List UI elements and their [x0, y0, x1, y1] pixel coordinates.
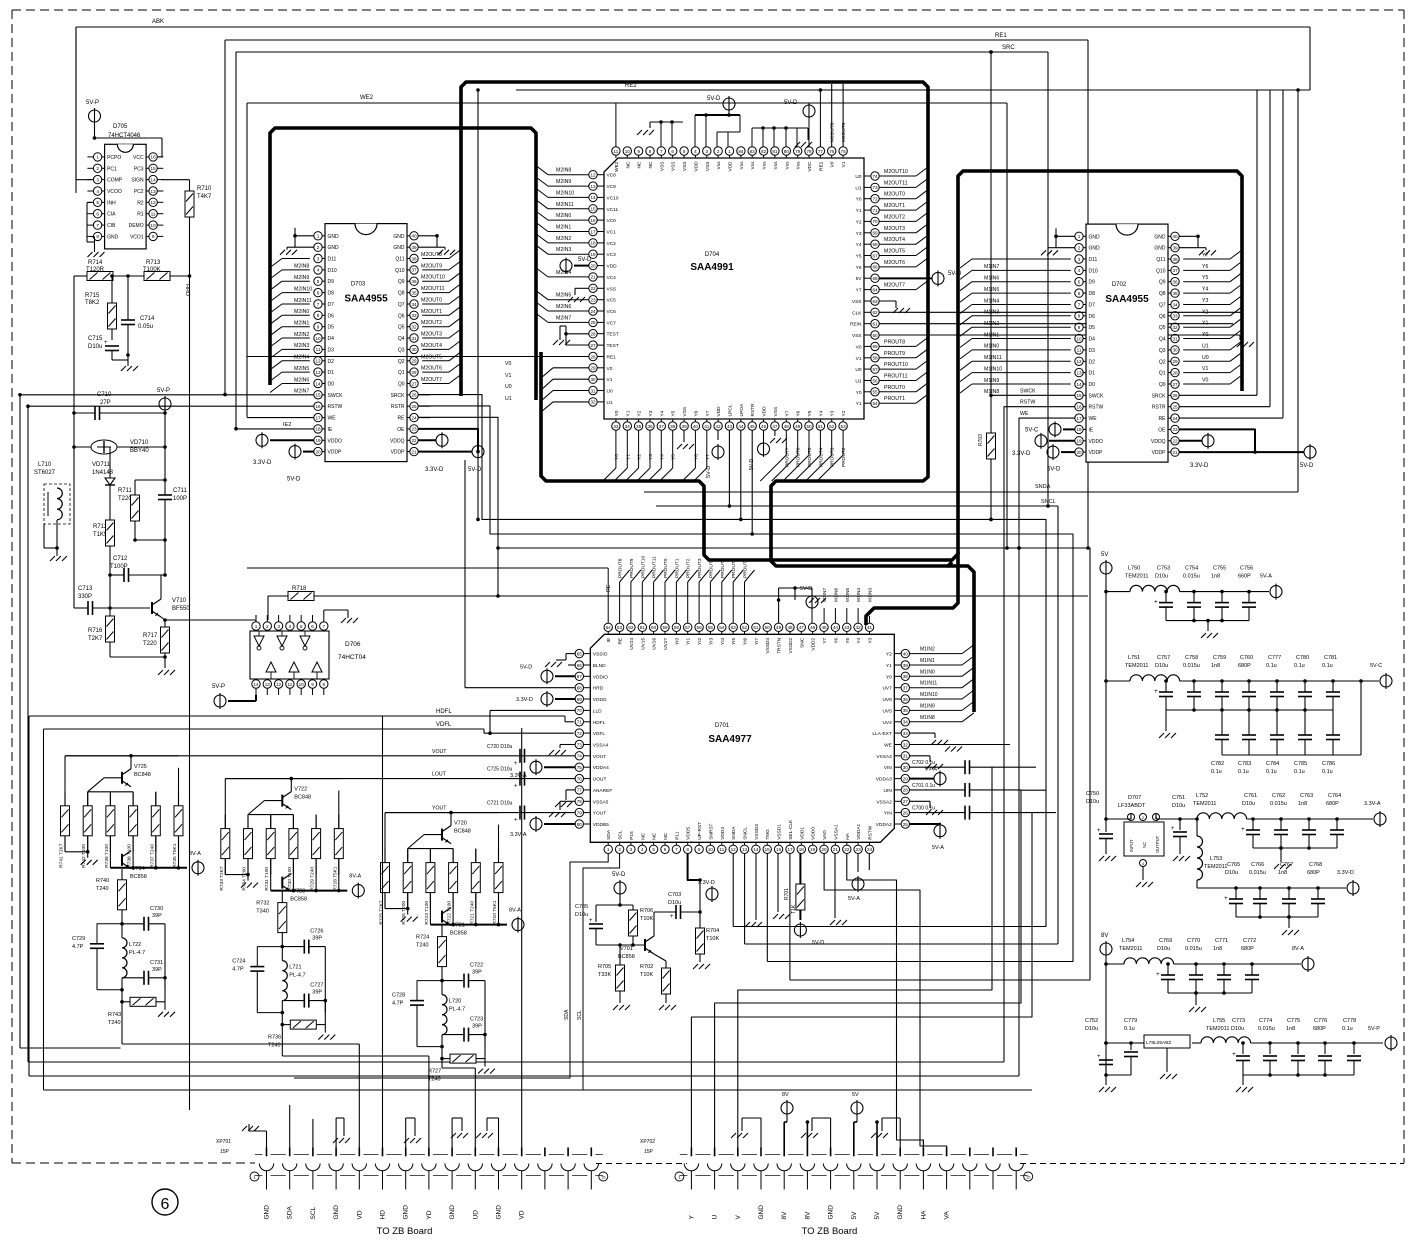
svg-text:GND: GND [1154, 246, 1166, 252]
svg-text:72: 72 [872, 197, 878, 202]
svg-text:1n8: 1n8 [1278, 870, 1287, 876]
ground XP701 pin1 [242, 1124, 267, 1148]
svg-text:7: 7 [675, 847, 678, 852]
svg-text:D7: D7 [328, 302, 335, 308]
svg-text:M2OUT7: M2OUT7 [421, 377, 442, 383]
svg-text:VDDG: VDDG [593, 697, 607, 703]
svg-text:M2IN3: M2IN3 [556, 247, 571, 253]
IC D701 bottom pins [604, 819, 874, 853]
svg-text:R721 T240: R721 T240 [469, 901, 475, 925]
svg-text:72: 72 [577, 731, 583, 736]
svg-text:38: 38 [1172, 257, 1178, 262]
svg-text:C756: C756 [1240, 566, 1253, 572]
svg-text:VDDB5: VDDB5 [593, 822, 609, 828]
svg-text:1: 1 [317, 234, 320, 239]
svg-text:9: 9 [311, 682, 314, 687]
connector XP701 pins [255, 1148, 603, 1190]
svg-text:VOUT: VOUT [432, 749, 447, 755]
svg-text:Y1: Y1 [625, 410, 631, 416]
svg-text:YI6: YI6 [743, 637, 749, 645]
svg-text:M2IN0: M2IN0 [556, 213, 571, 219]
svg-text:VDD: VDD [716, 406, 722, 417]
power 8V rail [1100, 933, 1112, 1075]
svg-text:48: 48 [787, 625, 793, 630]
svg-text:VSSIO: VSSIO [593, 652, 608, 658]
resistor R731 T100 [264, 815, 275, 891]
IC D702 SAA4955 body [1086, 224, 1168, 462]
resistor R703 [978, 50, 996, 521]
svg-text:3: 3 [630, 847, 633, 852]
svg-text:15P: 15P [644, 1149, 654, 1155]
svg-text:T100P: T100P [110, 564, 128, 570]
IC D701 top pins [604, 623, 874, 654]
svg-text:M2IN7: M2IN7 [294, 389, 309, 395]
svg-text:37: 37 [411, 268, 417, 273]
capacitor C723 39P [442, 1017, 487, 1042]
svg-text:0.1u: 0.1u [1294, 769, 1305, 775]
svg-text:SCL: SCL [618, 830, 624, 840]
svg-text:60: 60 [872, 333, 878, 338]
svg-text:VDD: VDD [762, 406, 768, 417]
svg-text:Y1: Y1 [856, 208, 862, 214]
svg-text:32: 32 [411, 325, 417, 330]
svg-text:82: 82 [761, 149, 767, 154]
resistor R737 T240 [149, 792, 160, 868]
inductor L721 PL-4.7 [281, 947, 306, 1015]
svg-text:M2OUT0: M2OUT0 [884, 192, 905, 198]
svg-text:D10u: D10u [1085, 1026, 1098, 1032]
svg-text:5V-C: 5V-C [1370, 663, 1382, 669]
capacitor C729 4.7P [72, 924, 122, 990]
svg-text:C757: C757 [1157, 655, 1170, 661]
svg-text:M2OUT3: M2OUT3 [884, 226, 905, 232]
svg-text:77: 77 [577, 788, 583, 793]
resistor R729 T240 [310, 815, 321, 891]
svg-text:Y5: Y5 [1202, 275, 1208, 281]
IC D706 bottom pins [252, 680, 328, 695]
capacitor C757 D10u [1154, 655, 1173, 710]
svg-text:36: 36 [1172, 280, 1178, 285]
ground D704 pin22 [568, 288, 589, 302]
svg-text:VDD: VDD [693, 161, 699, 172]
svg-text:T8K2: T8K2 [85, 300, 100, 306]
svg-text:80: 80 [784, 149, 790, 154]
svg-text:M2IN2: M2IN2 [556, 236, 571, 242]
wire row1 gnd bus [1166, 619, 1249, 623]
svg-text:5V-P: 5V-P [1368, 1026, 1380, 1032]
ground XP701 pin9 [451, 1118, 468, 1148]
svg-text:U0: U0 [1202, 355, 1209, 361]
capacitor C758 0.015u [1183, 655, 1201, 710]
svg-text:70: 70 [872, 219, 878, 224]
svg-text:PC2: PC2 [134, 189, 144, 195]
svg-text:U: U [712, 1215, 719, 1220]
wires D703 right control [418, 395, 430, 418]
capacitor C772 680P [1241, 938, 1259, 993]
svg-text:3.3V-A: 3.3V-A [510, 832, 527, 838]
svg-text:Y6: Y6 [693, 454, 699, 460]
svg-text:11: 11 [151, 212, 156, 217]
capacitor C703 D10u [654, 892, 702, 928]
svg-text:M2IN4: M2IN4 [294, 355, 309, 361]
svg-text:VDDP: VDDP [328, 450, 343, 456]
svg-text:7: 7 [323, 624, 326, 629]
svg-text:U1: U1 [505, 396, 512, 402]
svg-text:VDDQ: VDDQ [390, 438, 405, 444]
svg-text:10: 10 [1076, 336, 1082, 341]
svg-text:D8: D8 [1089, 291, 1096, 297]
svg-text:37: 37 [659, 424, 665, 429]
svg-text:R703: R703 [978, 434, 984, 446]
svg-text:YI5: YI5 [731, 637, 737, 645]
svg-text:20: 20 [315, 449, 321, 454]
svg-text:VDD0: VDD0 [811, 827, 817, 840]
svg-text:C771: C771 [1215, 938, 1228, 944]
ground D703 input side [280, 228, 314, 256]
wire V710 out [165, 615, 256, 620]
ground stage bank [225, 859, 258, 889]
svg-text:RSTW: RSTW [1020, 400, 1035, 406]
svg-text:VSS: VSS [852, 333, 862, 339]
IC D705 74HCT4046 body [105, 124, 147, 249]
svg-text:55: 55 [708, 625, 714, 630]
svg-text:Q7: Q7 [398, 302, 405, 308]
svg-text:5V-D: 5V-D [1047, 466, 1061, 472]
svg-text:29: 29 [903, 776, 909, 781]
svg-text:NC: NC [640, 832, 646, 839]
svg-text:GND: GND [1089, 246, 1101, 252]
connector XP701 pin numbers [250, 1172, 608, 1181]
svg-text:SCL: SCL [310, 1206, 317, 1219]
svg-text:SDA: SDA [287, 1205, 294, 1219]
svg-text:P11: P11 [674, 831, 680, 840]
wire HRD vertical [184, 276, 190, 1110]
svg-text:28: 28 [411, 370, 417, 375]
svg-text:5V-D: 5V-D [707, 96, 721, 102]
svg-text:VC4: VC4 [607, 275, 617, 281]
resistor R704 T10K [693, 912, 719, 970]
svg-text:D10: D10 [1089, 268, 1098, 274]
svg-text:+: + [1241, 826, 1245, 833]
svg-text:56: 56 [872, 378, 878, 383]
svg-text:NC: NC [652, 832, 658, 839]
svg-text:9: 9 [637, 149, 640, 154]
svg-text:V1: V1 [1202, 366, 1208, 372]
svg-text:BC848: BC848 [134, 772, 151, 778]
ground stage bank [385, 893, 418, 923]
svg-text:45: 45 [750, 424, 756, 429]
wire row3 gnd bus [1253, 846, 1337, 850]
svg-text:D702: D702 [1112, 282, 1127, 288]
svg-text:31: 31 [903, 754, 909, 759]
svg-text:R701: R701 [784, 888, 790, 900]
svg-text:PROUT5: PROUT5 [720, 558, 726, 578]
svg-text:6: 6 [664, 847, 667, 852]
svg-text:V0: V0 [1202, 378, 1208, 384]
ground row1 [1201, 619, 1218, 639]
svg-text:Q10: Q10 [395, 268, 405, 274]
svg-text:R738 T100: R738 T100 [127, 844, 133, 868]
svg-text:R735 T5K1: R735 T5K1 [172, 843, 178, 868]
svg-text:LF33ABDT: LF33ABDT [1118, 803, 1146, 809]
svg-text:Y4: Y4 [856, 242, 862, 248]
svg-text:M2IN2: M2IN2 [294, 332, 309, 338]
svg-text:RSTW: RSTW [868, 825, 874, 840]
svg-text:Y2: Y2 [841, 410, 847, 416]
ground D703 output side [418, 234, 455, 255]
IC D704 right pins [850, 172, 879, 408]
svg-text:23: 23 [411, 427, 417, 432]
svg-text:C700 0.1u: C700 0.1u [912, 806, 935, 812]
svg-text:GND: GND [328, 245, 340, 251]
svg-text:Y6: Y6 [1202, 264, 1208, 270]
resistor R714 T120R [74, 260, 144, 281]
svg-text:C702 0.1u: C702 0.1u [912, 760, 935, 766]
wire HDFL line [29, 709, 574, 722]
svg-text:R737 T240: R737 T240 [149, 844, 155, 868]
svg-text:D6: D6 [1089, 314, 1096, 320]
svg-text:C715: C715 [88, 336, 103, 342]
transistor V722 BC848 [248, 779, 311, 815]
power 5V-C D702 IE [1025, 421, 1075, 437]
svg-text:T2K7: T2K7 [88, 636, 103, 642]
svg-text:21: 21 [1172, 450, 1178, 455]
svg-text:HDFL: HDFL [436, 709, 452, 715]
svg-text:GND: GND [107, 234, 119, 240]
svg-text:C711: C711 [173, 488, 188, 494]
svg-text:35: 35 [1172, 291, 1178, 296]
svg-text:R734 T200: R734 T200 [242, 867, 248, 891]
svg-text:D10u: D10u [1172, 803, 1185, 809]
svg-text:M2IN8: M2IN8 [556, 168, 571, 174]
wires D702 right control [1179, 395, 1283, 418]
svg-text:BF550: BF550 [172, 606, 190, 612]
resistor R730 T100 [287, 815, 298, 891]
power 5V-D below D701 [596, 872, 633, 907]
svg-text:5V-D: 5V-D [784, 100, 798, 106]
capacitor C726 39P [282, 929, 325, 1013]
svg-text:21: 21 [411, 449, 417, 454]
svg-text:M2OUT11: M2OUT11 [421, 286, 445, 292]
svg-text:TEM2011: TEM2011 [1119, 946, 1142, 952]
svg-text:C773: C773 [1232, 1018, 1245, 1024]
svg-text:Q8: Q8 [1159, 291, 1166, 297]
svg-text:D8: D8 [328, 291, 335, 297]
svg-text:0.015u: 0.015u [1258, 1026, 1275, 1032]
svg-text:VSS: VSS [682, 407, 688, 417]
svg-text:YI1: YI1 [686, 637, 692, 645]
svg-text:0.1u: 0.1u [1294, 663, 1305, 669]
svg-text:5V-D: 5V-D [1300, 463, 1314, 469]
svg-text:3.3V-D: 3.3V-D [516, 697, 533, 703]
IC D703 left pins [314, 232, 343, 456]
svg-text:34: 34 [903, 720, 909, 725]
svg-text:27: 27 [590, 343, 596, 348]
svg-text:Y7: Y7 [856, 288, 862, 294]
svg-text:5V-D: 5V-D [948, 271, 962, 277]
svg-text:49: 49 [795, 424, 801, 429]
svg-text:D10u: D10u [575, 912, 588, 918]
svg-text:35: 35 [636, 424, 642, 429]
IC D704 bottom pins [612, 403, 848, 430]
power 5V-P at D705 [86, 100, 162, 157]
svg-text:8V: 8V [782, 1092, 789, 1098]
svg-text:22: 22 [1172, 439, 1178, 444]
svg-text:2: 2 [96, 166, 99, 171]
svg-text:D0: D0 [328, 382, 335, 388]
svg-text:60: 60 [651, 625, 657, 630]
ground row4 [1282, 915, 1299, 935]
svg-text:27: 27 [903, 799, 909, 804]
svg-text:13: 13 [590, 184, 596, 189]
svg-text:VDDO: VDDO [1089, 439, 1104, 445]
svg-text:YI4: YI4 [720, 637, 726, 645]
svg-text:C703: C703 [668, 892, 681, 898]
svg-text:YI2: YI2 [697, 637, 703, 645]
svg-text:2: 2 [317, 245, 320, 250]
svg-text:7: 7 [660, 149, 663, 154]
wire SWCK chain [418, 395, 1046, 927]
svg-text:M1IN5: M1IN5 [984, 287, 999, 293]
svg-text:TEM2011: TEM2011 [1204, 864, 1227, 870]
svg-text:M2OUT4: M2OUT4 [421, 343, 442, 349]
svg-text:M2OUT6: M2OUT6 [421, 366, 442, 372]
svg-text:VDD5: VDD5 [686, 827, 692, 840]
svg-text:D706: D706 [345, 641, 361, 648]
svg-text:C759: C759 [1213, 655, 1226, 661]
wires D701 left lower [65, 744, 575, 838]
svg-text:D4: D4 [328, 336, 335, 342]
svg-text:M1IN10: M1IN10 [984, 367, 1002, 373]
svg-text:M2OUT6: M2OUT6 [884, 260, 905, 266]
svg-text:L710: L710 [38, 462, 52, 468]
svg-text:40: 40 [693, 424, 699, 429]
svg-text:7: 7 [317, 302, 320, 307]
svg-text:M2IN5: M2IN5 [294, 366, 309, 372]
svg-text:C751: C751 [1172, 795, 1185, 801]
svg-text:3.3V-D: 3.3V-D [253, 460, 272, 466]
connector XP702 label [640, 1139, 655, 1155]
svg-text:6: 6 [96, 212, 99, 217]
svg-text:XP701: XP701 [216, 1139, 231, 1145]
svg-text:PL-4.7: PL-4.7 [129, 950, 145, 956]
svg-text:5V: 5V [852, 1092, 859, 1098]
svg-text:15: 15 [1076, 393, 1082, 398]
svg-text:73: 73 [577, 742, 583, 747]
power 5V-D D704 pin20 [560, 257, 592, 274]
svg-text:Q11: Q11 [1156, 257, 1165, 263]
power symbol 5V-C [1370, 663, 1392, 689]
svg-text:51: 51 [753, 625, 759, 630]
svg-text:Y6: Y6 [693, 410, 699, 416]
power 5V-P row6 [1368, 1026, 1397, 1051]
svg-text:67: 67 [577, 674, 583, 679]
resistor R736 T240 [268, 1001, 335, 1049]
svg-text:15P: 15P [220, 1149, 230, 1155]
resistor R723 T100 [424, 849, 435, 925]
wires D704 V0V1U0U1 [505, 361, 589, 412]
capacitor C713 330P [74, 586, 112, 615]
svg-text:GND: GND [496, 1205, 503, 1220]
svg-text:+: + [670, 914, 674, 920]
svg-text:PROUT4: PROUT4 [818, 447, 824, 467]
svg-text:C767: C767 [1280, 862, 1293, 868]
svg-text:1n8: 1n8 [1286, 1026, 1295, 1032]
page number 6 [152, 1189, 178, 1215]
svg-text:680P: 680P [1326, 801, 1339, 807]
svg-text:OE: OE [1158, 427, 1166, 433]
svg-text:D5: D5 [1089, 325, 1096, 331]
svg-text:C783: C783 [1238, 761, 1251, 767]
svg-text:GND: GND [1154, 234, 1166, 240]
svg-text:DEMO: DEMO [129, 223, 144, 229]
resistor R739 T100 [104, 792, 115, 868]
IC D701 right pins [872, 649, 909, 828]
coil L710 ST6027 [34, 462, 70, 562]
capacitor C722 39P [442, 963, 485, 1047]
svg-text:Y2: Y2 [637, 410, 643, 416]
svg-text:CIB: CIB [107, 223, 116, 229]
svg-text:14: 14 [590, 195, 596, 200]
svg-text:15: 15 [765, 847, 771, 852]
svg-text:5V-A: 5V-A [1260, 574, 1272, 580]
svg-text:Y5: Y5 [671, 454, 677, 460]
svg-text:27: 27 [411, 381, 417, 386]
svg-text:12: 12 [1076, 359, 1082, 364]
svg-text:D7: D7 [1089, 303, 1096, 309]
svg-text:C753: C753 [1157, 566, 1170, 572]
svg-text:8: 8 [686, 847, 689, 852]
svg-text:ABK: ABK [152, 19, 164, 25]
svg-text:VC8: VC8 [607, 173, 617, 179]
svg-text:5V-A: 5V-A [932, 845, 944, 851]
svg-text:41: 41 [704, 424, 710, 429]
svg-text:RE: RE [398, 416, 406, 422]
svg-text:M2OUT8: M2OUT8 [421, 252, 442, 258]
wire RSTR chain [418, 406, 1073, 962]
svg-text:R2: R2 [137, 200, 144, 206]
svg-text:UV27: UV27 [663, 637, 669, 649]
power symbol 8V-A [1292, 946, 1314, 972]
ground D702 output side [1179, 235, 1216, 256]
IC D702 right pins [1151, 232, 1179, 456]
svg-text:R731 T100: R731 T100 [264, 867, 270, 891]
svg-text:VDDA3: VDDA3 [876, 777, 892, 783]
svg-text:36: 36 [411, 279, 417, 284]
svg-text:Y4: Y4 [659, 410, 665, 416]
svg-text:8V-A: 8V-A [349, 874, 361, 880]
transistor V725 BC848 [88, 756, 151, 792]
svg-text:HA: HA [920, 1210, 927, 1220]
ground XP702 pin10 [871, 1118, 900, 1148]
svg-text:IE: IE [328, 427, 333, 433]
ground D704 pin47 [770, 430, 787, 443]
svg-text:51: 51 [818, 424, 824, 429]
svg-text:40: 40 [411, 234, 417, 239]
svg-text:R726 T200: R726 T200 [401, 901, 407, 925]
capacitor C711 100P [135, 447, 188, 575]
svg-text:U1: U1 [607, 400, 613, 406]
IC D705 pins left [87, 153, 122, 241]
svg-text:54: 54 [719, 625, 725, 630]
svg-text:V0: V0 [856, 344, 862, 350]
svg-text:IE: IE [1089, 427, 1094, 433]
wires D704 PROUT bottom [760, 430, 847, 481]
svg-text:Q0: Q0 [1159, 382, 1166, 388]
svg-text:VDDP: VDDP [1089, 450, 1104, 456]
svg-text:VD711: VD711 [92, 462, 111, 468]
svg-text:39P: 39P [472, 970, 482, 976]
